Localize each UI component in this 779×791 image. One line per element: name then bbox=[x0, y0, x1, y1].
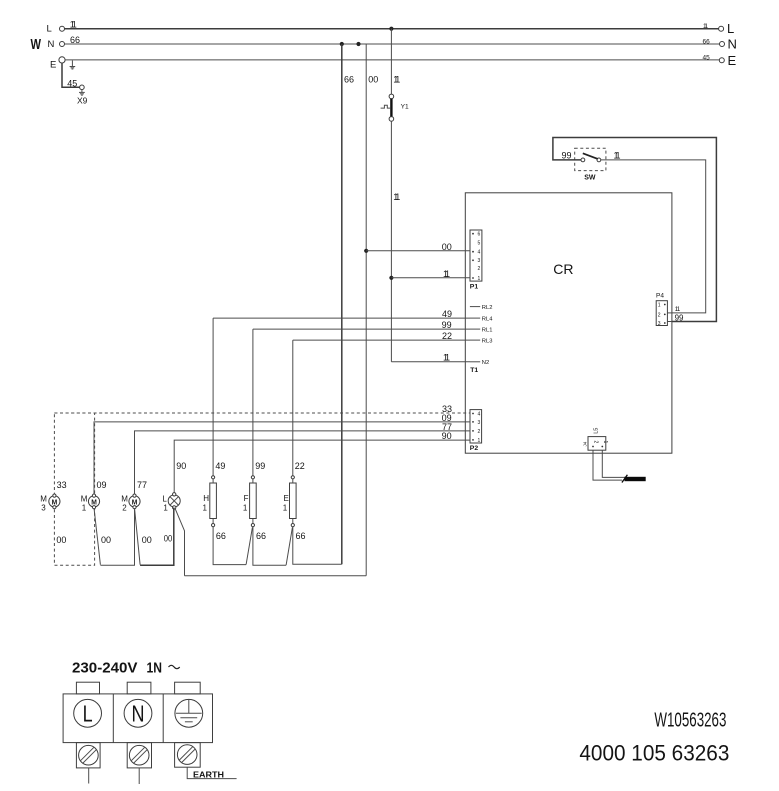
svg-text:2: 2 bbox=[478, 429, 481, 435]
wire M2 bottom slant bbox=[135, 508, 141, 565]
wire P4 pin2 out bbox=[667, 312, 672, 314]
wire 99 SW left loop bbox=[553, 138, 717, 322]
wire 99 RL1 to F1 bbox=[253, 328, 470, 330]
wire riser 66 bbox=[341, 44, 343, 564]
svg-text:1: 1 bbox=[658, 303, 661, 309]
svg-text:77: 77 bbox=[137, 480, 147, 490]
svg-text:00: 00 bbox=[142, 535, 152, 545]
svg-text:RL1: RL1 bbox=[482, 327, 493, 333]
svg-text:W: W bbox=[31, 37, 42, 53]
wire L5 pin2 to probe bbox=[593, 450, 622, 480]
wire riser 11 upper bbox=[390, 29, 392, 95]
wire earth lead bbox=[187, 767, 236, 778]
svg-text:N: N bbox=[48, 39, 55, 50]
wire 09 P2 pin3 to M1 bbox=[94, 422, 470, 496]
ground symbol on E rail bbox=[70, 61, 76, 70]
svg-text:1: 1 bbox=[478, 276, 481, 282]
node E right terminal bbox=[719, 58, 724, 63]
heater E1 bbox=[283, 476, 306, 541]
wire P4 pin3 out bbox=[667, 321, 672, 323]
wire E branch 45 to X9 bbox=[62, 63, 80, 87]
svg-text:3: 3 bbox=[478, 258, 481, 264]
wire riser 11 lower bbox=[390, 121, 392, 362]
terminal N bbox=[124, 699, 152, 727]
svg-text:F: F bbox=[244, 494, 249, 503]
svg-text:2: 2 bbox=[478, 266, 481, 272]
svg-text:2: 2 bbox=[658, 312, 661, 318]
screw N bbox=[129, 745, 149, 765]
terminal tab L bbox=[76, 682, 99, 694]
temperature probe bbox=[625, 477, 646, 481]
svg-text:4: 4 bbox=[478, 412, 481, 418]
relay stub RL3 bbox=[470, 339, 480, 341]
wire 22 riser to E1 bbox=[292, 340, 294, 476]
svg-text:3: 3 bbox=[478, 420, 481, 426]
svg-text:3: 3 bbox=[658, 321, 661, 327]
svg-text:P2: P2 bbox=[470, 445, 479, 452]
svg-text:L: L bbox=[727, 21, 734, 36]
relay stub RL1 bbox=[470, 328, 480, 330]
wire riser 00 bbox=[365, 44, 367, 576]
svg-text:1: 1 bbox=[602, 441, 608, 444]
node L left terminal bbox=[60, 26, 65, 31]
svg-text:49: 49 bbox=[215, 461, 225, 471]
wire 11 SW right to P4 bbox=[601, 160, 706, 313]
svg-text:1: 1 bbox=[203, 504, 208, 513]
svg-text:11: 11 bbox=[703, 23, 708, 30]
screw L bbox=[79, 745, 99, 765]
connector L5 bbox=[583, 428, 609, 451]
connector P2 bbox=[470, 410, 482, 453]
svg-text:P4: P4 bbox=[656, 293, 664, 300]
svg-text:230-240V: 230-240V bbox=[72, 660, 138, 677]
switch SW bbox=[581, 158, 585, 162]
wire M1 bottom slant bbox=[94, 508, 100, 565]
svg-text:00: 00 bbox=[56, 535, 66, 545]
svg-text:RL4: RL4 bbox=[482, 316, 493, 322]
wire 11 to P1 pin1 bbox=[391, 277, 470, 279]
svg-text:00: 00 bbox=[442, 242, 452, 252]
svg-text:P1: P1 bbox=[470, 284, 479, 291]
svg-text:66: 66 bbox=[296, 531, 306, 541]
svg-text:45: 45 bbox=[67, 78, 77, 88]
dashed option box around M3 bbox=[54, 413, 94, 565]
screw housing L bbox=[76, 743, 100, 768]
svg-text:66: 66 bbox=[256, 531, 266, 541]
svg-text:4: 4 bbox=[478, 250, 481, 256]
wire L5 pin1 to probe bbox=[602, 450, 625, 477]
svg-text:11: 11 bbox=[70, 20, 77, 30]
svg-text:N: N bbox=[132, 701, 145, 727]
svg-text:W10563263: W10563263 bbox=[654, 710, 726, 732]
wire L1 slant to 00 bus bbox=[175, 508, 185, 575]
svg-text:5: 5 bbox=[478, 241, 481, 247]
terminal L bbox=[74, 699, 102, 727]
wire 00 to P1 pin4 bbox=[366, 250, 470, 252]
svg-text:1: 1 bbox=[478, 438, 481, 444]
svg-text:22: 22 bbox=[295, 461, 305, 471]
screw housing N bbox=[127, 743, 151, 768]
wire 49 RL4 to H1 bbox=[213, 317, 470, 319]
svg-text:SW: SW bbox=[584, 175, 596, 182]
svg-text:90: 90 bbox=[176, 461, 186, 471]
svg-text:4000 105 63263: 4000 105 63263 bbox=[579, 741, 729, 766]
node L right terminal bbox=[719, 26, 724, 31]
svg-text:M: M bbox=[91, 497, 97, 506]
svg-text:11: 11 bbox=[614, 150, 621, 160]
svg-text:6: 6 bbox=[478, 232, 481, 238]
svg-text:49: 49 bbox=[442, 309, 452, 319]
ground X9 bbox=[79, 90, 85, 96]
svg-text:22: 22 bbox=[442, 331, 452, 341]
solenoid valve Y1 bbox=[381, 94, 409, 121]
wire E1 straight + 66 bus to riser bbox=[293, 527, 342, 565]
relay stub RL2 bbox=[470, 306, 480, 308]
junction dot riser 00 / P1 bbox=[364, 249, 368, 253]
control board CR bbox=[465, 193, 672, 453]
svg-text:N2: N2 bbox=[482, 360, 489, 366]
svg-text:11: 11 bbox=[675, 306, 681, 313]
node E left terminal bbox=[59, 57, 65, 63]
terminal block body bbox=[63, 694, 212, 743]
triac stub T1 N2 bbox=[470, 361, 480, 363]
svg-text:E: E bbox=[50, 60, 56, 71]
heater F1 bbox=[243, 476, 266, 541]
wire N lead bbox=[138, 768, 140, 784]
wire E rail bbox=[65, 59, 719, 61]
wire 33 dashed P2 pin4 to M3 bbox=[54, 412, 470, 414]
wire 11 to T1 bbox=[391, 361, 470, 363]
connector P4 bbox=[656, 293, 667, 327]
svg-text:90: 90 bbox=[442, 431, 452, 441]
screw E bbox=[177, 745, 197, 765]
svg-text:E: E bbox=[728, 53, 737, 68]
svg-text:00: 00 bbox=[101, 535, 111, 545]
svg-text:3: 3 bbox=[41, 503, 46, 512]
motor M2 bbox=[121, 480, 151, 545]
svg-text:2: 2 bbox=[593, 441, 599, 444]
motor M3 bbox=[40, 480, 66, 545]
wire L lead bbox=[88, 768, 90, 784]
svg-text:T1: T1 bbox=[470, 367, 478, 374]
svg-text:11: 11 bbox=[393, 75, 400, 85]
svg-text:66: 66 bbox=[703, 38, 711, 45]
node X9 terminal bbox=[80, 85, 85, 90]
junction dot on N rail bbox=[356, 42, 360, 46]
svg-text:66: 66 bbox=[216, 531, 226, 541]
wire 22 RL3 to E1 bbox=[293, 339, 470, 341]
terminal tab E bbox=[175, 682, 201, 694]
connector P1 bbox=[470, 230, 482, 291]
wire F1 slant to 66 bus bbox=[246, 527, 252, 564]
svg-text:45: 45 bbox=[703, 55, 711, 62]
node N right terminal bbox=[720, 42, 725, 47]
svg-text:M: M bbox=[132, 497, 138, 506]
svg-text:RL2: RL2 bbox=[482, 305, 493, 311]
svg-text:J4: J4 bbox=[583, 441, 588, 446]
svg-text:L: L bbox=[47, 24, 52, 35]
svg-text:L: L bbox=[83, 701, 93, 727]
svg-text:RL3: RL3 bbox=[482, 338, 493, 344]
svg-text:1: 1 bbox=[243, 504, 248, 513]
wire 77 P2 pin2 to M2 bbox=[135, 431, 471, 496]
relay stub RL4 bbox=[470, 317, 480, 319]
wire 00 bottom bus bbox=[185, 575, 367, 577]
junction dot riser 11 / P1 bbox=[389, 276, 393, 280]
svg-text:99: 99 bbox=[255, 461, 265, 471]
svg-text:M: M bbox=[52, 497, 58, 506]
svg-text:99: 99 bbox=[442, 320, 452, 330]
svg-text:11: 11 bbox=[393, 192, 400, 202]
svg-text:H: H bbox=[203, 494, 209, 503]
svg-text:1: 1 bbox=[82, 503, 87, 512]
svg-text:1N: 1N bbox=[147, 660, 163, 677]
svg-text:1: 1 bbox=[163, 503, 168, 512]
wire 49 riser to H1 bbox=[212, 318, 214, 476]
wire F1 straight + 66 bus to E1 bbox=[253, 527, 286, 566]
svg-text:N: N bbox=[728, 37, 737, 52]
svg-text:2: 2 bbox=[122, 503, 127, 512]
wire 90 P2 pin1 to L1 bbox=[174, 440, 470, 494]
svg-text:99: 99 bbox=[562, 150, 572, 160]
node N left terminal bbox=[60, 42, 65, 47]
svg-text:33: 33 bbox=[57, 480, 67, 490]
wire 00 bus M2-L1 bbox=[140, 508, 174, 566]
motor M1 bbox=[81, 480, 111, 545]
wire E1 slant to 66 bus bbox=[286, 527, 292, 565]
wire N rail 66 bbox=[65, 43, 720, 45]
svg-text:11: 11 bbox=[443, 269, 450, 279]
svg-text:EARTH: EARTH bbox=[193, 769, 224, 779]
junction dot on L rail bbox=[389, 27, 393, 31]
wire 00 bus M1-M2 bbox=[100, 508, 134, 565]
heater H1 bbox=[203, 476, 226, 541]
terminal earth bbox=[175, 699, 203, 727]
svg-text:99: 99 bbox=[675, 314, 684, 323]
svg-text:X9: X9 bbox=[77, 96, 88, 106]
svg-text:00: 00 bbox=[164, 534, 173, 544]
wire 99 riser to F1 bbox=[252, 329, 254, 476]
svg-text:CR: CR bbox=[553, 261, 573, 277]
svg-text:09: 09 bbox=[97, 480, 107, 490]
svg-text:00: 00 bbox=[368, 75, 378, 85]
svg-text:11: 11 bbox=[443, 352, 450, 362]
svg-text:66: 66 bbox=[70, 35, 80, 45]
switch SW dashed enclosure bbox=[575, 148, 606, 170]
wire H1 down to 66 bus bbox=[213, 527, 246, 565]
svg-text:E: E bbox=[284, 494, 289, 503]
screw housing E bbox=[175, 743, 201, 768]
svg-text:Y1: Y1 bbox=[401, 103, 409, 110]
junction dot on N rail bbox=[340, 42, 344, 46]
terminal tab N bbox=[127, 682, 151, 694]
lamp L1 bbox=[162, 493, 180, 544]
wire L rail 11 bbox=[65, 28, 719, 30]
svg-text:66: 66 bbox=[344, 75, 354, 85]
svg-text:1: 1 bbox=[283, 504, 288, 513]
svg-text:L5: L5 bbox=[594, 428, 600, 434]
